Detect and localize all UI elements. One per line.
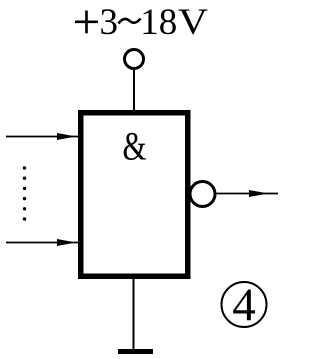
svg-text:18: 18 (140, 2, 177, 43)
svg-text:&: & (123, 124, 147, 169)
svg-text:4: 4 (232, 279, 256, 331)
svg-text:V: V (178, 2, 208, 43)
svg-text:3: 3 (100, 2, 119, 43)
